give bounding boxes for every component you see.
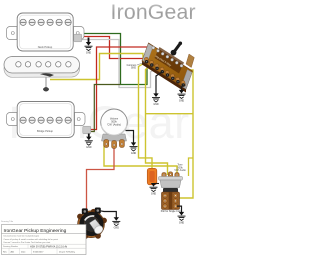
output jack J1 [75, 208, 107, 239]
ground symbol GND6 [112, 221, 120, 225]
svg-text:IronGear: IronGear [111, 1, 196, 24]
wire: switch black to GND4 [156, 72, 162, 94]
svg-text:Pull for Single Coil: Pull for Single Coil [161, 210, 181, 213]
svg-text:GND: GND [179, 100, 185, 103]
neck pickup humbucker [7, 13, 85, 51]
switch body shadow side [142, 61, 186, 93]
switch metal end right [181, 70, 192, 89]
jack terminals [82, 208, 88, 214]
svg-text:Unused wires must be insulated: Unused wires must be insulated (tape) [4, 235, 40, 238]
ground symbol GND4 [152, 98, 160, 102]
svg-text:GND: GND [86, 146, 92, 149]
wire: jack black to GND6 [100, 211, 116, 218]
switch mounting ear right [186, 54, 194, 68]
svg-text:GND: GND [151, 193, 157, 196]
wire: push-pull black to GND8 [177, 206, 182, 212]
middle pickup single coil [4, 57, 80, 78]
jack ground arrow 6 [114, 217, 119, 221]
push-pull ground arrow 8 [179, 212, 184, 216]
ground symbol GND7 [150, 187, 158, 191]
switch dark patch [155, 47, 185, 74]
tone ground arrow 7 [151, 183, 156, 187]
push-pull switch SW2 [162, 188, 180, 210]
svg-text:GND: GND [131, 152, 137, 155]
wire: neck red to switch [80, 37, 145, 59]
svg-text:3/105/2017: 3/105/2017 [33, 251, 44, 253]
wire: switch yellow drop 2 to tone lug [146, 65, 168, 175]
switch lever [171, 50, 177, 56]
svg-text:Drawn: R.Hartley: Drawn: R.Hartley [59, 250, 76, 253]
svg-text:Drawing Title: Drawing Title [1, 220, 14, 223]
title block [1, 220, 86, 255]
neck ground arrow [86, 38, 91, 46]
svg-text:Unsure? consult a Pro Guitar T: Unsure? consult a Pro Guitar Tech before… [4, 241, 51, 244]
svg-text:GND: GND [153, 103, 159, 106]
svg-text:IronGear Pickup Engineering: IronGear Pickup Engineering [4, 228, 67, 234]
switch body PCB face [142, 43, 193, 89]
svg-text:GND: GND [86, 52, 92, 55]
svg-text:GND: GND [114, 227, 120, 230]
ground symbol GND5 [178, 94, 186, 98]
bridge pickup humbucker [7, 102, 86, 138]
svg-text:Neck Pickup: Neck Pickup [38, 45, 53, 49]
wire: volume casing black to GND3 [126, 131, 134, 144]
volume pot VR1 [101, 109, 128, 149]
switch screws row [152, 46, 183, 67]
ground symbol GND2 [85, 141, 93, 145]
svg-text:Cover all pickup & switch cavi: Cover all pickup & switch cavities with … [4, 238, 59, 241]
volume lugs [104, 140, 125, 149]
wire: neck green to switch [80, 34, 151, 85]
wire: switch yellow drop 1 to tone area [139, 62, 153, 170]
wire: tone casing to GND7 [154, 183, 160, 185]
bridge ground arrow [86, 134, 91, 141]
5-way switch SW1 [142, 42, 194, 93]
tone pot VR2 [159, 172, 183, 188]
wire: bridge green to switch bundle [89, 85, 121, 132]
capacitor C1 [147, 168, 157, 185]
svg-text:'CW' (Audio): 'CW' (Audio) [107, 123, 121, 126]
switch ground arrow 5 [179, 90, 184, 94]
svg-text:GND: GND [131, 68, 136, 70]
svg-text:'CW' Audio: 'CW' Audio [174, 169, 186, 172]
ground symbol GND1 [85, 46, 93, 50]
svg-text:GND: GND [179, 222, 185, 225]
svg-text:Bridge Pickup: Bridge Pickup [37, 129, 54, 133]
wire: neck white to switch [80, 40, 156, 88]
switch terminal lugs [144, 57, 186, 87]
switch ground arrow 4 [153, 93, 158, 97]
neck cable stub [74, 34, 82, 42]
wire: volume red to jack [87, 147, 115, 212]
jack cup [90, 219, 103, 232]
ground symbol GND3 [130, 147, 138, 151]
wire: switch yellow right edge to push-pull [179, 70, 194, 198]
volume ground arrow 3 [131, 142, 136, 146]
wire: bridge red to switch [89, 47, 148, 130]
wire: middle pickup yellow to switch [50, 54, 143, 80]
svg-text:Drawing Number: Drawing Number [3, 246, 18, 248]
middle pickup ground screw [45, 77, 47, 88]
bridge cable stub [83, 126, 91, 134]
wire: switch yellow cross link [146, 113, 194, 115]
wire: switch black to GND5 [182, 85, 184, 91]
wire: yellow branch to tone right lug [189, 158, 194, 176]
wire: volume yellow to tone [104, 141, 177, 174]
ground symbol GND8 [178, 216, 186, 220]
switch metal end left [142, 44, 153, 64]
